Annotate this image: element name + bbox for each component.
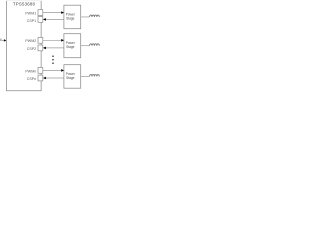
- wire CSP2 from power stage 2: [45, 47, 64, 49]
- ellipsis dots: [52, 55, 54, 57]
- inductor L2: [90, 44, 100, 46]
- controller U1 TPS53688 outline: [6, 1, 41, 91]
- power stage 2: [64, 34, 81, 58]
- svg-text:TPS53688: TPS53688: [13, 2, 36, 7]
- output wire 1: [81, 16, 90, 18]
- pin box PWM1: [38, 10, 43, 16]
- input arrow into controller: [0, 39, 5, 41]
- svg-text:Stage: Stage: [66, 76, 75, 80]
- wire PWMn to power stage n: [43, 69, 62, 71]
- output wire 3: [81, 75, 90, 77]
- power stage 1: [64, 5, 81, 29]
- wire CSP1 from power stage 1: [45, 18, 64, 20]
- output wire 2: [81, 45, 90, 47]
- power stage n: [64, 65, 81, 89]
- inductor L1: [90, 15, 100, 17]
- pin box CSPn: [38, 75, 43, 81]
- svg-text:Stage: Stage: [66, 17, 75, 21]
- wire CSPn from power stage n: [45, 77, 64, 79]
- pin box PWM2: [38, 37, 43, 43]
- svg-text:PWM1: PWM1: [25, 12, 36, 16]
- pin box PWMn: [38, 68, 43, 74]
- svg-text:CSPn: CSPn: [27, 77, 36, 81]
- svg-text:Stage: Stage: [66, 45, 75, 49]
- clipped input label fragment: [0, 39, 2, 40]
- svg-text:PWMn: PWMn: [25, 69, 36, 73]
- wire PWM2 to power stage 2: [43, 39, 62, 41]
- svg-text:CSP1: CSP1: [27, 19, 36, 23]
- wire PWM1 to power stage 1: [43, 12, 62, 14]
- svg-text:CSP2: CSP2: [27, 47, 36, 51]
- pin box CSP1: [38, 17, 43, 23]
- pin box CSP2: [38, 45, 43, 51]
- inductor L3: [90, 75, 100, 77]
- svg-text:PWM2: PWM2: [25, 39, 36, 43]
- controller top edge: [6, 0, 41, 2]
